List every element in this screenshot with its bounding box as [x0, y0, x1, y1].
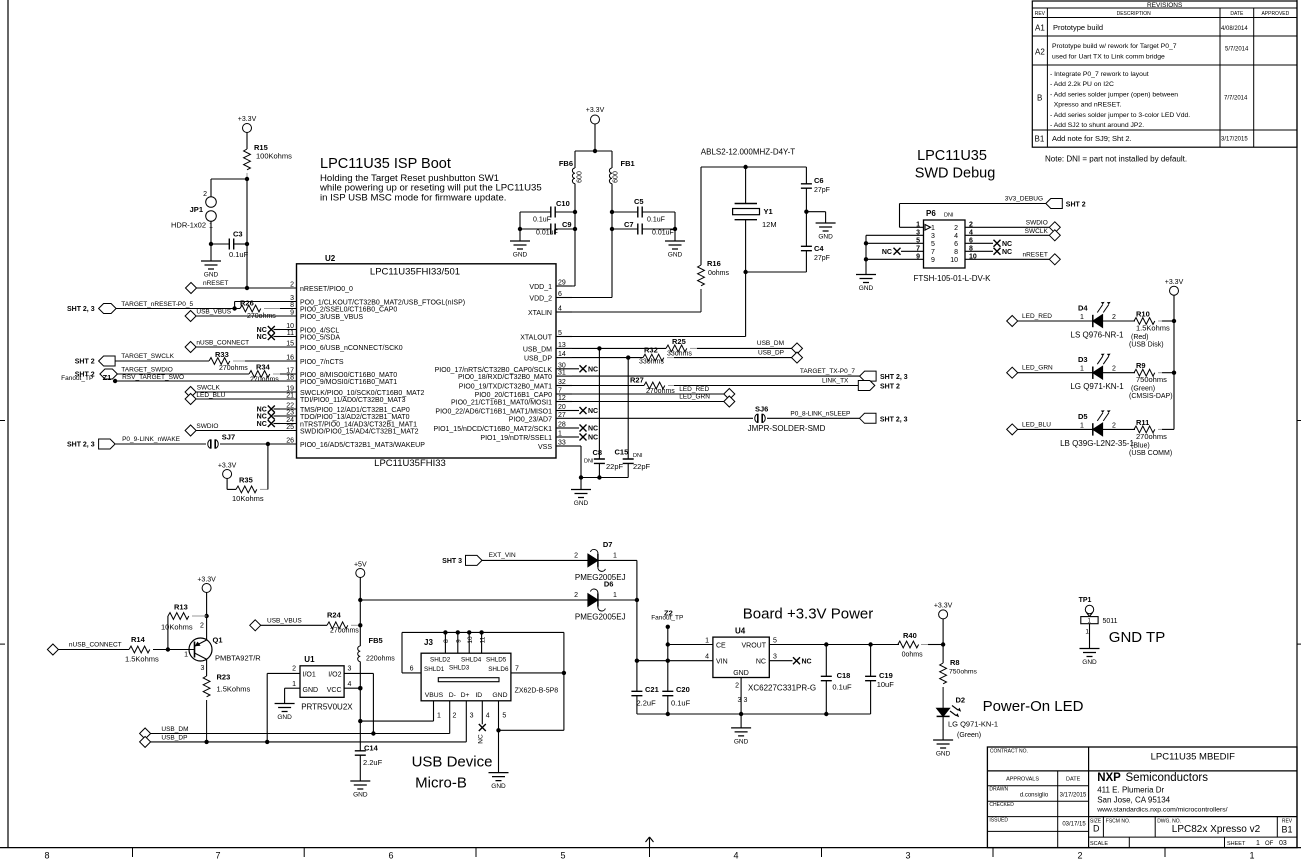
- svg-text:TARGET_nRESET-P0_5: TARGET_nRESET-P0_5: [121, 301, 193, 308]
- svg-text:TARGET_SWCLK: TARGET_SWCLK: [121, 353, 174, 360]
- svg-text:A1: A1: [1035, 24, 1045, 33]
- svg-text:2: 2: [290, 282, 294, 289]
- svg-text:R27: R27: [630, 376, 644, 385]
- svg-text:C3: C3: [233, 230, 243, 239]
- svg-text:0.1uF: 0.1uF: [533, 217, 551, 224]
- svg-text:6: 6: [969, 237, 973, 244]
- svg-text:DRAWN: DRAWN: [989, 787, 1008, 793]
- svg-text:2: 2: [200, 623, 204, 630]
- svg-text:1: 1: [1256, 840, 1260, 847]
- svg-text:www.standardics.nxp.com/microc: www.standardics.nxp.com/microcontrollers…: [1096, 807, 1227, 814]
- svg-text:B1: B1: [1035, 135, 1045, 144]
- svg-text:LPC11U35FHI33/501: LPC11U35FHI33/501: [370, 267, 460, 278]
- svg-text:C9: C9: [562, 220, 572, 229]
- svg-text:2.2uF: 2.2uF: [363, 758, 383, 767]
- svg-text:+3.3V: +3.3V: [218, 463, 237, 470]
- svg-text:LED_GRN: LED_GRN: [1022, 365, 1053, 372]
- svg-text:5: 5: [916, 237, 920, 244]
- svg-text:PIO0_18/RXD/CT32B0_MAT0: PIO0_18/RXD/CT32B0_MAT0: [458, 374, 552, 381]
- svg-text:VSS: VSS: [538, 444, 552, 451]
- svg-text:DNI: DNI: [633, 453, 643, 459]
- svg-text:4: 4: [733, 851, 738, 861]
- svg-text:33: 33: [558, 440, 566, 447]
- svg-text:7: 7: [515, 666, 519, 673]
- svg-text:C8: C8: [593, 448, 603, 457]
- svg-text:4: 4: [348, 681, 352, 688]
- svg-text:(USB COMM): (USB COMM): [1129, 450, 1172, 457]
- svg-text:NC: NC: [588, 435, 598, 442]
- svg-text:18: 18: [286, 375, 294, 382]
- svg-text:1: 1: [613, 553, 617, 560]
- svg-text:RSV_TARGET_SWO: RSV_TARGET_SWO: [122, 374, 184, 381]
- svg-text:15: 15: [286, 341, 294, 348]
- svg-text:XC6227C331PR-G: XC6227C331PR-G: [748, 684, 816, 693]
- svg-text:Prototype build: Prototype build: [1053, 23, 1103, 32]
- svg-text:D6: D6: [604, 580, 614, 589]
- svg-text:C14: C14: [364, 744, 379, 753]
- svg-text:0.01uF: 0.01uF: [536, 230, 558, 237]
- svg-text:LED_BLU: LED_BLU: [1022, 421, 1051, 428]
- svg-text:SHLD5: SHLD5: [486, 657, 507, 664]
- svg-text:ZX62D-B-5P8: ZX62D-B-5P8: [515, 688, 559, 695]
- svg-text:P0_8-LINK_nSLEEP: P0_8-LINK_nSLEEP: [790, 411, 850, 418]
- svg-text:6: 6: [954, 241, 958, 248]
- svg-text:22: 22: [286, 403, 294, 410]
- svg-text:(Green): (Green): [957, 732, 981, 739]
- svg-text:03/17/15: 03/17/15: [1062, 822, 1086, 828]
- svg-text:1: 1: [558, 431, 562, 438]
- svg-text:Power-On LED: Power-On LED: [983, 698, 1084, 715]
- svg-text:nRESET/PIO0_0: nRESET/PIO0_0: [300, 286, 353, 293]
- svg-text:Semiconductors: Semiconductors: [1126, 772, 1209, 784]
- svg-text:PO0_1/CLKOUT/CT32B0_MAT2/USB_F: PO0_1/CLKOUT/CT32B0_MAT2/USB_FTOGL(nISP): [300, 300, 465, 307]
- svg-text:27pF: 27pF: [814, 255, 830, 262]
- svg-text:NC: NC: [1002, 249, 1012, 256]
- svg-text:8: 8: [969, 245, 973, 252]
- svg-text:PMBTA92T/R: PMBTA92T/R: [215, 654, 261, 663]
- svg-text:R35: R35: [239, 476, 253, 485]
- svg-text:2: 2: [453, 713, 457, 720]
- svg-text:SHT 2: SHT 2: [1066, 202, 1086, 209]
- svg-text:12M: 12M: [762, 220, 777, 229]
- svg-text:5: 5: [560, 851, 565, 861]
- svg-text:R8: R8: [950, 658, 960, 667]
- svg-text:PIO0_6/USB_nCONNECT/SCK0: PIO0_6/USB_nCONNECT/SCK0: [300, 345, 403, 352]
- svg-text:1: 1: [613, 592, 617, 599]
- svg-text:0ohms: 0ohms: [902, 652, 924, 659]
- svg-text:TDI/PIO0_11/AD0/CT32B0_MAT3: TDI/PIO0_11/AD0/CT32B0_MAT3: [300, 397, 406, 404]
- svg-text:SWCLK: SWCLK: [1025, 228, 1049, 235]
- svg-text:B: B: [1037, 94, 1042, 103]
- svg-text:U4: U4: [735, 627, 746, 636]
- svg-text:P6: P6: [926, 209, 936, 218]
- svg-text:7/7/2014: 7/7/2014: [1224, 96, 1248, 102]
- svg-text:LPC11U35FHI33: LPC11U35FHI33: [374, 458, 446, 469]
- svg-text:LPC11U35: LPC11U35: [917, 148, 987, 164]
- svg-text:R24: R24: [327, 611, 342, 620]
- svg-text:NC: NC: [802, 658, 812, 665]
- svg-text:+3.3V: +3.3V: [586, 107, 605, 114]
- svg-text:10uF: 10uF: [877, 680, 895, 689]
- svg-text:03: 03: [1279, 840, 1287, 847]
- svg-text:used for Uart TX to Link comm: used for Uart TX to Link comm bridge: [1052, 54, 1165, 61]
- svg-text:(USB Disk): (USB Disk): [1129, 342, 1164, 349]
- svg-text:FB5: FB5: [369, 636, 383, 645]
- svg-text:270ohms: 270ohms: [219, 365, 248, 372]
- svg-text:LINK_TX: LINK_TX: [822, 378, 849, 385]
- svg-text:USB_DP: USB_DP: [161, 735, 187, 742]
- svg-text:5/7/2014: 5/7/2014: [1225, 47, 1249, 53]
- svg-text:APPROVED: APPROVED: [1261, 11, 1289, 17]
- svg-text:3: 3: [470, 713, 474, 720]
- svg-text:NC: NC: [257, 327, 267, 334]
- svg-text:PMEG2005EJ: PMEG2005EJ: [575, 573, 626, 582]
- svg-text:11: 11: [480, 636, 487, 643]
- svg-text:d.consiglio: d.consiglio: [1020, 793, 1049, 799]
- svg-text:LG Q971-KN-1: LG Q971-KN-1: [1070, 382, 1124, 391]
- svg-text:JP1: JP1: [190, 205, 203, 214]
- svg-text:DNI: DNI: [944, 213, 954, 219]
- svg-text:SWDIO/PIO0_15/AD4/CT32B1_MAT2: SWDIO/PIO0_15/AD4/CT32B1_MAT2: [300, 429, 419, 436]
- svg-text:PIO1_19/nDTR/SSEL1: PIO1_19/nDTR/SSEL1: [480, 435, 552, 442]
- svg-text:3: 3: [905, 851, 910, 861]
- svg-text:D-: D-: [449, 692, 456, 699]
- svg-text:1: 1: [1085, 629, 1089, 636]
- svg-text:SWCLK: SWCLK: [197, 385, 221, 392]
- svg-text:DATE: DATE: [1066, 777, 1081, 783]
- svg-text:10Kohms: 10Kohms: [161, 623, 193, 632]
- svg-text:10: 10: [286, 323, 294, 330]
- svg-text:SHT 2, 3: SHT 2, 3: [67, 442, 95, 449]
- svg-text:0.1uF: 0.1uF: [647, 217, 665, 224]
- svg-text:8: 8: [443, 639, 450, 643]
- svg-text:R16: R16: [707, 259, 721, 268]
- svg-text:2: 2: [1112, 422, 1116, 429]
- svg-text:D: D: [1093, 824, 1100, 834]
- svg-text:B1: B1: [1281, 825, 1292, 835]
- svg-text:USB_DP: USB_DP: [758, 350, 784, 357]
- svg-text:1: 1: [1249, 851, 1254, 861]
- svg-text:1.5Kohms: 1.5Kohms: [217, 685, 251, 694]
- svg-text:LED_RED: LED_RED: [679, 386, 709, 393]
- svg-text:3: 3: [290, 295, 294, 302]
- svg-text:16: 16: [286, 355, 294, 362]
- svg-text:ABLS2-12.000MHZ-D4Y-T: ABLS2-12.000MHZ-D4Y-T: [701, 148, 796, 157]
- svg-text:0.1uF: 0.1uF: [671, 699, 691, 708]
- svg-text:19: 19: [286, 386, 294, 393]
- svg-text:Q1: Q1: [213, 636, 223, 645]
- svg-text:GND: GND: [492, 692, 507, 699]
- svg-text:- Add series solder jumper to: - Add series solder jumper to 3-color LE…: [1050, 112, 1190, 119]
- svg-text:+3.3V: +3.3V: [1165, 279, 1184, 286]
- svg-text:GND: GND: [303, 687, 319, 694]
- svg-text:PIO0_3/USB_VBUS: PIO0_3/USB_VBUS: [300, 314, 363, 321]
- svg-text:SWDIO: SWDIO: [1026, 220, 1048, 227]
- svg-text:PIO0_16/AD5/CT32B1_MAT3/WAKEUP: PIO0_16/AD5/CT32B1_MAT3/WAKEUP: [300, 442, 425, 449]
- svg-text:NC: NC: [1002, 241, 1012, 248]
- svg-text:4: 4: [705, 654, 709, 661]
- svg-text:750ohms: 750ohms: [949, 669, 978, 676]
- svg-text:20: 20: [558, 404, 566, 411]
- svg-text:4: 4: [969, 229, 973, 236]
- svg-text:R25: R25: [672, 337, 686, 346]
- svg-text:R32: R32: [644, 346, 658, 355]
- svg-text:4: 4: [486, 713, 490, 720]
- svg-text:P0_9-LINK_nWAKE: P0_9-LINK_nWAKE: [122, 436, 181, 443]
- svg-text:(CMSIS-DAP): (CMSIS-DAP): [1129, 393, 1173, 400]
- svg-text:- Add series solder jumper (op: - Add series solder jumper (open) betwee…: [1050, 91, 1178, 98]
- svg-text:22pF: 22pF: [606, 462, 624, 471]
- svg-text:3: 3: [201, 665, 205, 672]
- svg-text:XTALIN: XTALIN: [528, 310, 552, 317]
- svg-text:10: 10: [467, 636, 474, 644]
- svg-text:PIO0_23/AD7: PIO0_23/AD7: [509, 416, 552, 423]
- svg-text:2: 2: [292, 666, 296, 673]
- svg-text:D5: D5: [1078, 412, 1088, 421]
- svg-text:XTALOUT: XTALOUT: [520, 335, 552, 342]
- svg-text:nUSB_CONNECT: nUSB_CONNECT: [196, 340, 249, 347]
- svg-text:SHT 2, 3: SHT 2, 3: [880, 374, 908, 381]
- svg-text:USB_DP: USB_DP: [524, 356, 552, 363]
- svg-text:0.01uF: 0.01uF: [652, 230, 674, 237]
- svg-text:R34: R34: [256, 363, 271, 372]
- svg-text:CONTRACT NO.: CONTRACT NO.: [990, 749, 1028, 755]
- svg-text:2: 2: [574, 553, 578, 560]
- svg-text:SWD Debug: SWD Debug: [915, 166, 996, 182]
- svg-text:LPC11U35 MBEDIF: LPC11U35 MBEDIF: [1151, 752, 1235, 763]
- svg-text:33ohms: 33ohms: [667, 351, 692, 358]
- svg-text:PIO0_22/AD6/CT16B1_MAT1/MISO1: PIO0_22/AD6/CT16B1_MAT1/MISO1: [435, 409, 552, 416]
- svg-text:R14: R14: [131, 635, 146, 644]
- svg-text:nTRST/PIO0_14/AD3/CT32B1_MAT1: nTRST/PIO0_14/AD3/CT32B1_MAT1: [300, 422, 417, 429]
- svg-text:VBUS: VBUS: [425, 692, 444, 699]
- svg-text:San Jose, CA 95134: San Jose, CA 95134: [1097, 795, 1170, 804]
- svg-text:PIO0_8/MISO0/CT16B0_MAT0: PIO0_8/MISO0/CT16B0_MAT0: [300, 372, 397, 379]
- svg-text:EXT_VIN: EXT_VIN: [489, 552, 516, 559]
- svg-text:DESCRIPTION: DESCRIPTION: [1117, 11, 1152, 17]
- svg-text:NC: NC: [257, 407, 267, 414]
- svg-text:NC: NC: [257, 334, 267, 341]
- svg-text:PIO0_17/nRTS/CT32B0_CAP0/SCLK: PIO0_17/nRTS/CT32B0_CAP0/SCLK: [435, 367, 553, 374]
- svg-text:GND TP: GND TP: [1109, 629, 1165, 646]
- svg-text:REV: REV: [1035, 11, 1046, 17]
- svg-text:R13: R13: [174, 603, 188, 612]
- svg-text:750ohms: 750ohms: [1136, 375, 1167, 384]
- svg-text:C4: C4: [814, 244, 824, 253]
- svg-text:33ohms: 33ohms: [639, 359, 664, 366]
- svg-text:Note: DNI = part not installed: Note: DNI = part not installed by defaul…: [1045, 155, 1187, 164]
- svg-text:7: 7: [916, 245, 920, 252]
- svg-text:+3.3V: +3.3V: [934, 603, 953, 610]
- svg-text:2: 2: [735, 683, 739, 690]
- svg-text:27pF: 27pF: [814, 187, 830, 194]
- svg-text:- Add 2.2k PU on I2C: - Add 2.2k PU on I2C: [1050, 81, 1114, 88]
- svg-text:NC: NC: [882, 249, 892, 256]
- svg-text:VCC: VCC: [327, 687, 342, 694]
- svg-text:DNI: DNI: [584, 459, 594, 465]
- svg-text:Fanout_TP: Fanout_TP: [61, 375, 93, 382]
- svg-text:OF: OF: [1265, 841, 1274, 847]
- svg-text:FB6: FB6: [559, 159, 573, 168]
- svg-text:3: 3: [744, 697, 748, 704]
- svg-text:Y1: Y1: [764, 207, 773, 216]
- svg-text:GND: GND: [733, 670, 749, 677]
- svg-text:LS Q976-NR-1: LS Q976-NR-1: [1071, 331, 1124, 340]
- svg-text:REVISIONS: REVISIONS: [1147, 2, 1183, 9]
- svg-text:A2: A2: [1035, 48, 1045, 57]
- svg-text:1: 1: [1080, 366, 1084, 373]
- svg-text:7: 7: [215, 851, 220, 861]
- svg-text:0ohms: 0ohms: [708, 270, 730, 277]
- svg-text:9: 9: [916, 253, 920, 260]
- svg-text:D4: D4: [1078, 304, 1088, 313]
- svg-text:APPROVALS: APPROVALS: [1006, 777, 1039, 783]
- svg-text:600: 600: [577, 171, 584, 183]
- svg-text:10: 10: [950, 257, 958, 264]
- svg-text:VROUT: VROUT: [742, 643, 767, 650]
- svg-text:Add note for SJ9; Sht 2.: Add note for SJ9; Sht 2.: [1052, 134, 1132, 143]
- svg-text:Micro-B: Micro-B: [415, 775, 467, 792]
- svg-text:1.5Kohms: 1.5Kohms: [1136, 324, 1170, 333]
- svg-text:14: 14: [558, 351, 566, 358]
- svg-text:30: 30: [558, 362, 566, 369]
- svg-text:5: 5: [773, 638, 777, 645]
- svg-text:ID: ID: [475, 692, 482, 699]
- svg-text:270ohms: 270ohms: [1136, 432, 1167, 441]
- svg-text:27: 27: [558, 412, 566, 419]
- svg-text:Fanout_TP: Fanout_TP: [651, 615, 683, 622]
- svg-text:CHECKED: CHECKED: [989, 802, 1014, 808]
- svg-text:USB_DM: USB_DM: [757, 340, 784, 347]
- svg-text:1: 1: [931, 225, 935, 232]
- svg-text:R26: R26: [240, 299, 254, 308]
- svg-text:SWCLK/PIO0_10/SCK0/CT16B0_MAT2: SWCLK/PIO0_10/SCK0/CT16B0_MAT2: [300, 390, 424, 397]
- svg-text:FTSH-105-01-L-DV-K: FTSH-105-01-L-DV-K: [914, 274, 992, 283]
- svg-text:R9: R9: [1136, 361, 1146, 370]
- svg-text:PIO1_15/nDCD/CT16B0_MAT2/SCK1: PIO1_15/nDCD/CT16B0_MAT2/SCK1: [433, 426, 552, 433]
- svg-text:TMS/PIO0_12/AD1/CT32B1_CAP0: TMS/PIO0_12/AD1/CT32B1_CAP0: [300, 407, 410, 414]
- svg-text:NC: NC: [588, 408, 598, 415]
- svg-text:8: 8: [954, 249, 958, 256]
- svg-text:R10: R10: [1136, 310, 1150, 319]
- svg-text:(Red): (Red): [1131, 334, 1149, 341]
- svg-text:SHT 2: SHT 2: [75, 359, 95, 366]
- svg-text:NC: NC: [477, 734, 484, 744]
- svg-text:TARGET_TX-P0_7: TARGET_TX-P0_7: [800, 368, 856, 375]
- svg-text:SHLD2: SHLD2: [430, 657, 451, 664]
- svg-text:4: 4: [954, 233, 958, 240]
- svg-text:2: 2: [1112, 314, 1116, 321]
- svg-text:nRESET: nRESET: [1023, 252, 1048, 259]
- svg-text:220ohms: 220ohms: [366, 656, 395, 663]
- svg-text:USB_VBUS: USB_VBUS: [196, 309, 231, 316]
- svg-text:9: 9: [931, 257, 935, 264]
- svg-text:LED_GRN: LED_GRN: [679, 394, 710, 401]
- svg-text:PIO0_20/CT16B1_CAP0: PIO0_20/CT16B1_CAP0: [475, 392, 553, 399]
- svg-text:nRESET: nRESET: [203, 280, 228, 287]
- svg-text:Board +3.3V Power: Board +3.3V Power: [743, 606, 874, 623]
- svg-text:1: 1: [916, 221, 920, 228]
- svg-text:TARGET_SWDIO: TARGET_SWDIO: [121, 367, 173, 374]
- svg-text:HDR-1x02: HDR-1x02: [171, 221, 206, 230]
- svg-text:PMEG2005EJ: PMEG2005EJ: [575, 613, 626, 622]
- svg-text:SHEET: SHEET: [1227, 841, 1246, 847]
- svg-text:LED_RED: LED_RED: [1022, 313, 1052, 320]
- svg-text:5011: 5011: [1103, 618, 1118, 625]
- svg-text:SHLD3: SHLD3: [449, 664, 470, 671]
- svg-text:C7: C7: [624, 220, 634, 229]
- svg-text:DATE: DATE: [1230, 11, 1244, 17]
- svg-text:SHLD4: SHLD4: [461, 657, 482, 664]
- svg-text:R23: R23: [217, 673, 231, 682]
- svg-text:3: 3: [348, 666, 352, 673]
- svg-text:SHT 3: SHT 3: [442, 558, 462, 565]
- svg-text:600: 600: [613, 171, 620, 183]
- svg-text:I/O1: I/O1: [303, 672, 316, 679]
- svg-text:10Kohms: 10Kohms: [232, 494, 264, 503]
- svg-text:8: 8: [44, 851, 49, 861]
- svg-text:5: 5: [931, 241, 935, 248]
- svg-text:23: 23: [286, 410, 294, 417]
- svg-text:SHLD6: SHLD6: [488, 666, 509, 673]
- svg-text:1.5Kohms: 1.5Kohms: [125, 655, 159, 664]
- svg-text:USB_VBUS: USB_VBUS: [267, 618, 302, 625]
- svg-text:JMPR-SOLDER-SMD: JMPR-SOLDER-SMD: [748, 424, 826, 433]
- svg-text:NC: NC: [588, 367, 598, 374]
- svg-text:PIO0_2/SSEL0/CT16B0_CAP0: PIO0_2/SSEL0/CT16B0_CAP0: [300, 307, 397, 314]
- svg-text:TDO/PIO0_13/AD2/CT32B1_MAT0: TDO/PIO0_13/AD2/CT32B1_MAT0: [300, 414, 410, 421]
- svg-text:Xpresso and nRESET.: Xpresso and nRESET.: [1050, 102, 1122, 109]
- svg-text:270ohms: 270ohms: [330, 628, 359, 635]
- svg-text:SWDIO: SWDIO: [196, 423, 218, 430]
- svg-text:+5V: +5V: [354, 562, 367, 569]
- svg-text:TP1: TP1: [1079, 597, 1092, 604]
- svg-text:LPC82x Xpresso v2: LPC82x Xpresso v2: [1172, 824, 1261, 835]
- svg-text:PIO0_4/SCL: PIO0_4/SCL: [300, 328, 339, 335]
- svg-text:10: 10: [969, 253, 977, 260]
- svg-text:C15: C15: [615, 448, 629, 457]
- svg-text:VDD_2: VDD_2: [529, 296, 552, 303]
- svg-text:6: 6: [388, 851, 393, 861]
- svg-text:2: 2: [954, 225, 958, 232]
- svg-text:PIO0_19/TXD/CT32B0_MAT1: PIO0_19/TXD/CT32B0_MAT1: [459, 384, 552, 391]
- svg-text:PIO0_21/CT16B1_MAT0/MOSI1: PIO0_21/CT16B1_MAT0/MOSI1: [451, 400, 552, 407]
- svg-text:31: 31: [558, 370, 566, 377]
- svg-text:ISSUED: ISSUED: [989, 818, 1008, 824]
- svg-text:1: 1: [1080, 314, 1084, 321]
- svg-text:FSCM NO.: FSCM NO.: [1106, 819, 1130, 825]
- svg-text:I/O2: I/O2: [328, 672, 341, 679]
- svg-text:32: 32: [558, 379, 566, 386]
- svg-text:in ISP USB MSC mode for firmwa: in ISP USB MSC mode for firmware update.: [320, 192, 506, 203]
- svg-text:24: 24: [286, 417, 294, 424]
- svg-text:NXP: NXP: [1097, 772, 1121, 784]
- svg-text:0.1uF: 0.1uF: [229, 250, 249, 259]
- svg-text:21: 21: [286, 393, 294, 400]
- svg-text:C21: C21: [645, 685, 659, 694]
- svg-text:SHLD1: SHLD1: [424, 666, 445, 673]
- svg-text:(Green): (Green): [1131, 386, 1155, 393]
- svg-text:- Add SJ2 to shunt around JP2.: - Add SJ2 to shunt around JP2.: [1050, 122, 1144, 129]
- svg-text:26: 26: [286, 438, 294, 445]
- svg-text:LPC11U35 ISP Boot: LPC11U35 ISP Boot: [320, 156, 451, 172]
- svg-text:22pF: 22pF: [633, 462, 651, 471]
- svg-text:R33: R33: [215, 350, 229, 359]
- svg-text:4/08/2014: 4/08/2014: [1221, 26, 1248, 32]
- svg-text:SHT 2, 3: SHT 2, 3: [67, 306, 95, 313]
- svg-text:13: 13: [558, 342, 566, 349]
- svg-text:+3.3V: +3.3V: [238, 116, 257, 123]
